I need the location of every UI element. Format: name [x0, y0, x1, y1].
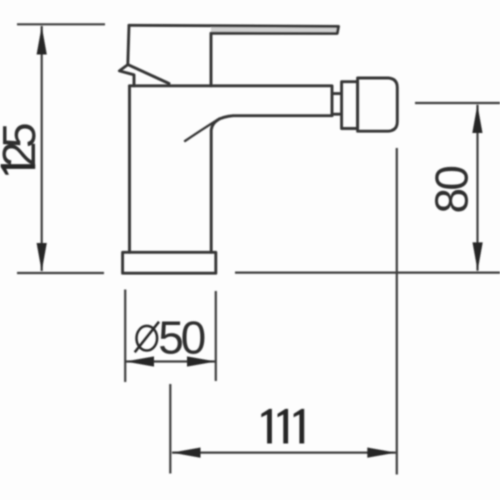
arrow d50 right — [187, 356, 216, 366]
label 111 (hand-drawn condensed ones) — [261, 409, 304, 444]
lever wedge diagonal — [128, 65, 169, 84]
arrow 125 up — [37, 26, 47, 54]
arrow 111 left — [172, 448, 201, 458]
111 dimension line — [172, 452, 396, 454]
svg-text:0: 0 — [181, 312, 207, 364]
lever bar interior tint — [211, 26, 339, 33]
d50 left extension line — [124, 290, 126, 383]
spout fillet accent curve — [185, 119, 220, 142]
body left edge — [128, 86, 131, 253]
arrow 80 up — [472, 105, 482, 133]
right extension line from aerator — [396, 148, 398, 475]
80 dimension line — [476, 105, 478, 271]
label diameter symbol — [135, 322, 159, 353]
aerator body — [358, 78, 398, 131]
svg-text:0: 0 — [425, 165, 477, 191]
baseline right segment — [235, 272, 500, 274]
svg-text:8: 8 — [425, 188, 477, 214]
base plate — [123, 252, 216, 273]
body top / spout top line — [130, 84, 333, 87]
80 top reference line — [415, 102, 500, 104]
d50 right extension line — [215, 291, 217, 381]
top reference line — [17, 23, 105, 25]
lever handle top bar — [129, 25, 339, 86]
lever handle left edge and front tip — [119, 25, 134, 86]
baseline left segment — [17, 272, 104, 274]
aerator back ring — [342, 82, 358, 129]
arrow 111 right — [367, 448, 396, 458]
d50 dimension line — [125, 360, 215, 362]
arrow 125 down — [37, 243, 47, 271]
centre extension line below plate — [169, 384, 171, 474]
aerator stub — [333, 94, 342, 115]
label 80 (rotated) — [425, 165, 477, 213]
body right edge + spout underside — [211, 116, 332, 253]
spout end cap — [331, 87, 334, 116]
arrow 80 down — [473, 242, 483, 270]
label 125 (rotated) — [0, 122, 45, 174]
faucet outline — [119, 25, 397, 273]
arrow d50 left — [125, 356, 154, 366]
svg-text:5: 5 — [0, 122, 45, 148]
125 dimension line — [41, 26, 43, 271]
arrowheads — [37, 26, 483, 458]
